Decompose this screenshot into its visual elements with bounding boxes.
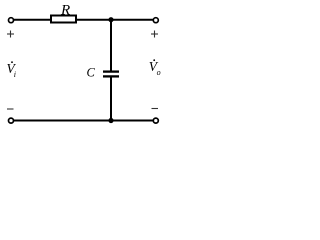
svg-text:o: o bbox=[157, 68, 161, 77]
svg-text:i: i bbox=[14, 70, 16, 79]
svg-text:C: C bbox=[87, 66, 96, 80]
svg-text:R: R bbox=[60, 2, 70, 18]
